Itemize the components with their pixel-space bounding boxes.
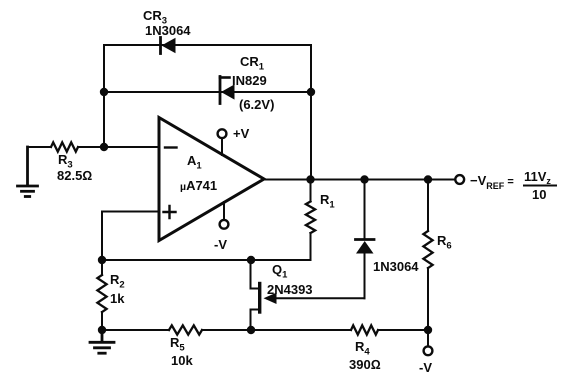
op-amp -V supply terminal bbox=[220, 202, 229, 229]
svg-text:1N3064: 1N3064 bbox=[145, 23, 191, 38]
terminal output VREF bbox=[455, 175, 464, 184]
resistor R5 bbox=[169, 325, 202, 334]
diode CR3 bbox=[161, 38, 176, 54]
svg-text:10: 10 bbox=[532, 187, 546, 202]
resistor R3 bbox=[28, 142, 160, 151]
wire bottom rail bbox=[102, 329, 428, 331]
node output / diode bbox=[360, 175, 368, 183]
wire op-amp output rail bbox=[264, 179, 455, 181]
node junction x311 y92 bbox=[307, 88, 315, 96]
diode D1 1N3064 clamp bbox=[356, 180, 375, 299]
resistor R4 bbox=[351, 325, 378, 334]
label output -VREF equation bbox=[470, 169, 557, 202]
svg-text:390Ω: 390Ω bbox=[349, 357, 381, 372]
svg-text:1k: 1k bbox=[110, 291, 125, 306]
svg-text:-V: -V bbox=[214, 237, 227, 252]
node junction R4 / R6 / -V bbox=[424, 326, 432, 334]
node junction R3 / inverting input bbox=[100, 143, 108, 151]
svg-text:2N4393: 2N4393 bbox=[267, 282, 313, 297]
node junction R2 / ground bbox=[98, 326, 106, 334]
node junction + input / R2 bbox=[98, 256, 106, 264]
svg-text:µA741: µA741 bbox=[180, 178, 217, 193]
wire Q1 gate bbox=[276, 297, 365, 299]
wire zener CR1 branch bbox=[104, 91, 311, 93]
op-amp +V supply terminal bbox=[218, 129, 227, 155]
wire non-inverting input bbox=[102, 212, 159, 261]
svg-text:82.5Ω: 82.5Ω bbox=[57, 168, 92, 183]
node junction Q1 drain bbox=[247, 256, 255, 264]
svg-text:10k: 10k bbox=[171, 353, 193, 368]
node output / feedback bbox=[306, 175, 314, 183]
transistor Q1 bbox=[251, 260, 277, 330]
wire drain node rail bbox=[102, 259, 311, 261]
svg-text:+V: +V bbox=[233, 126, 250, 141]
terminal -V supply bbox=[424, 330, 433, 355]
resistor R1 bbox=[306, 180, 315, 261]
svg-text:IN829: IN829 bbox=[232, 73, 267, 88]
svg-text:1N3064: 1N3064 bbox=[373, 259, 419, 274]
node junction x104 y92 bbox=[100, 88, 108, 96]
wire top feedback (CR3 branch) bbox=[104, 44, 311, 46]
diode CR1 zener bbox=[220, 77, 235, 104]
svg-text:-V: -V bbox=[419, 360, 432, 375]
wire left feedback vertical bbox=[103, 45, 105, 147]
ground left bbox=[18, 147, 38, 197]
resistor R6 bbox=[423, 180, 432, 331]
node output / R6 bbox=[424, 175, 432, 183]
resistor R2 bbox=[97, 260, 106, 330]
ground bottom bbox=[90, 330, 114, 353]
svg-text:(6.2V): (6.2V) bbox=[239, 97, 274, 112]
wire right feedback vertical bbox=[310, 45, 312, 180]
op-amp A1 bbox=[159, 118, 264, 241]
node junction Q1 source bbox=[247, 326, 255, 334]
